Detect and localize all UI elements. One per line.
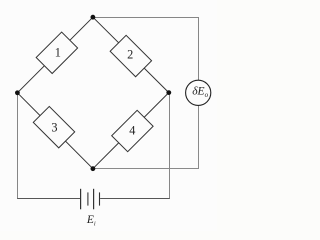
wire: bottom rail right segment from battery [100,197,169,199]
wire: top rail from node T to right edge [93,18,199,81]
meter dEo circle [186,80,211,105]
resistor box 3 [33,106,74,147]
battery short plate right [99,192,101,205]
node R [166,90,171,95]
wire: right edge below meter, then left to node B [93,105,199,168]
wire: right vertical up to node R [169,93,171,198]
resistor box 2 [110,35,151,76]
wire: bottom rail left segment to battery [18,197,81,199]
wire: bridge arm T-R [93,17,169,92]
resistor box 1 [36,32,77,73]
resistor box 4 [112,110,153,151]
wire: bridge arm L-B [17,93,93,169]
wire: bridge arm L-T [17,17,93,93]
svg-text:3: 3 [51,120,57,134]
node B [91,166,96,171]
svg-text:2: 2 [127,47,133,61]
wire: left vertical from node L [17,93,19,198]
battery tall plate left [80,189,82,210]
node L [15,90,20,95]
battery short plate [87,192,89,205]
svg-text:4: 4 [129,123,135,137]
wire: bridge arm B-R [93,93,169,169]
svg-text:1: 1 [55,45,61,59]
battery tall plate [93,189,95,210]
node T [91,15,96,20]
